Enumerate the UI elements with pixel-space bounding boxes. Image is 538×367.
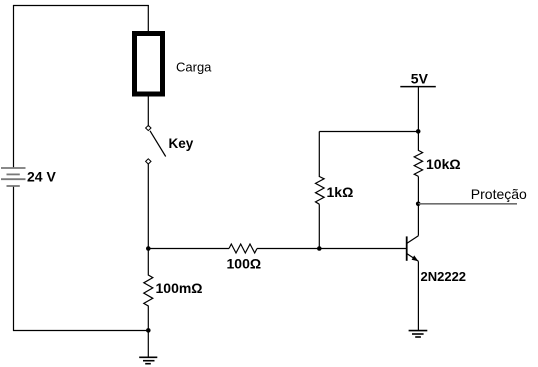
ground left <box>139 357 157 363</box>
resistor R 1k (vertical zigzag) <box>316 177 325 205</box>
svg-text:24 V: 24 V <box>27 169 56 185</box>
transistor Q1 2N2222 <box>407 204 419 261</box>
node junction branch <box>416 129 421 134</box>
resistor R 100m ohm (vertical zigzag) <box>144 249 153 331</box>
power rail 5V bar <box>400 86 436 88</box>
wire down to resistor 1k <box>318 132 320 178</box>
load (Carga) rectangle <box>135 34 163 95</box>
svg-text:Proteção: Proteção <box>471 186 527 202</box>
wire top rail <box>13 5 149 7</box>
node junction left mid <box>146 246 151 251</box>
wire left rail lower <box>13 187 15 331</box>
svg-text:1kΩ: 1kΩ <box>327 184 354 200</box>
wire output Protecao <box>418 203 517 205</box>
wire load top <box>147 5 149 32</box>
wire emitter to ground <box>417 261 419 330</box>
wire left rail upper <box>13 5 15 168</box>
wire load bottom <box>147 96 149 125</box>
svg-text:Key: Key <box>169 136 194 151</box>
svg-text:5V: 5V <box>411 70 429 86</box>
svg-text:2N2222: 2N2222 <box>421 269 467 284</box>
switch Key <box>146 125 166 164</box>
wire switch to mid node <box>147 164 149 249</box>
node junction collector output <box>416 202 421 207</box>
wire mid node to resistor 100 ohm <box>148 248 229 250</box>
node junction bottom left <box>146 328 151 333</box>
svg-text:100mΩ: 100mΩ <box>156 280 203 296</box>
svg-text:100Ω: 100Ω <box>227 255 262 271</box>
wire 5V to branch node <box>417 87 419 151</box>
resistor R 100 ohm (horizontal zigzag) <box>229 244 257 253</box>
wire branch node to 1k branch <box>319 131 418 133</box>
wire resistor 10k to collector node <box>417 176 419 204</box>
node junction base rail <box>317 246 322 251</box>
battery B1 24V <box>1 168 26 186</box>
wire resistor 1k to base rail <box>318 204 320 249</box>
resistor R 10k (vertical zigzag) <box>414 150 422 176</box>
wire resistor 100 ohm to base node <box>257 248 407 250</box>
wire bottom rail <box>13 330 149 332</box>
ground right <box>409 331 428 337</box>
svg-text:10kΩ: 10kΩ <box>426 156 461 172</box>
svg-text:Carga: Carga <box>176 60 212 75</box>
wire to left ground <box>147 330 149 357</box>
